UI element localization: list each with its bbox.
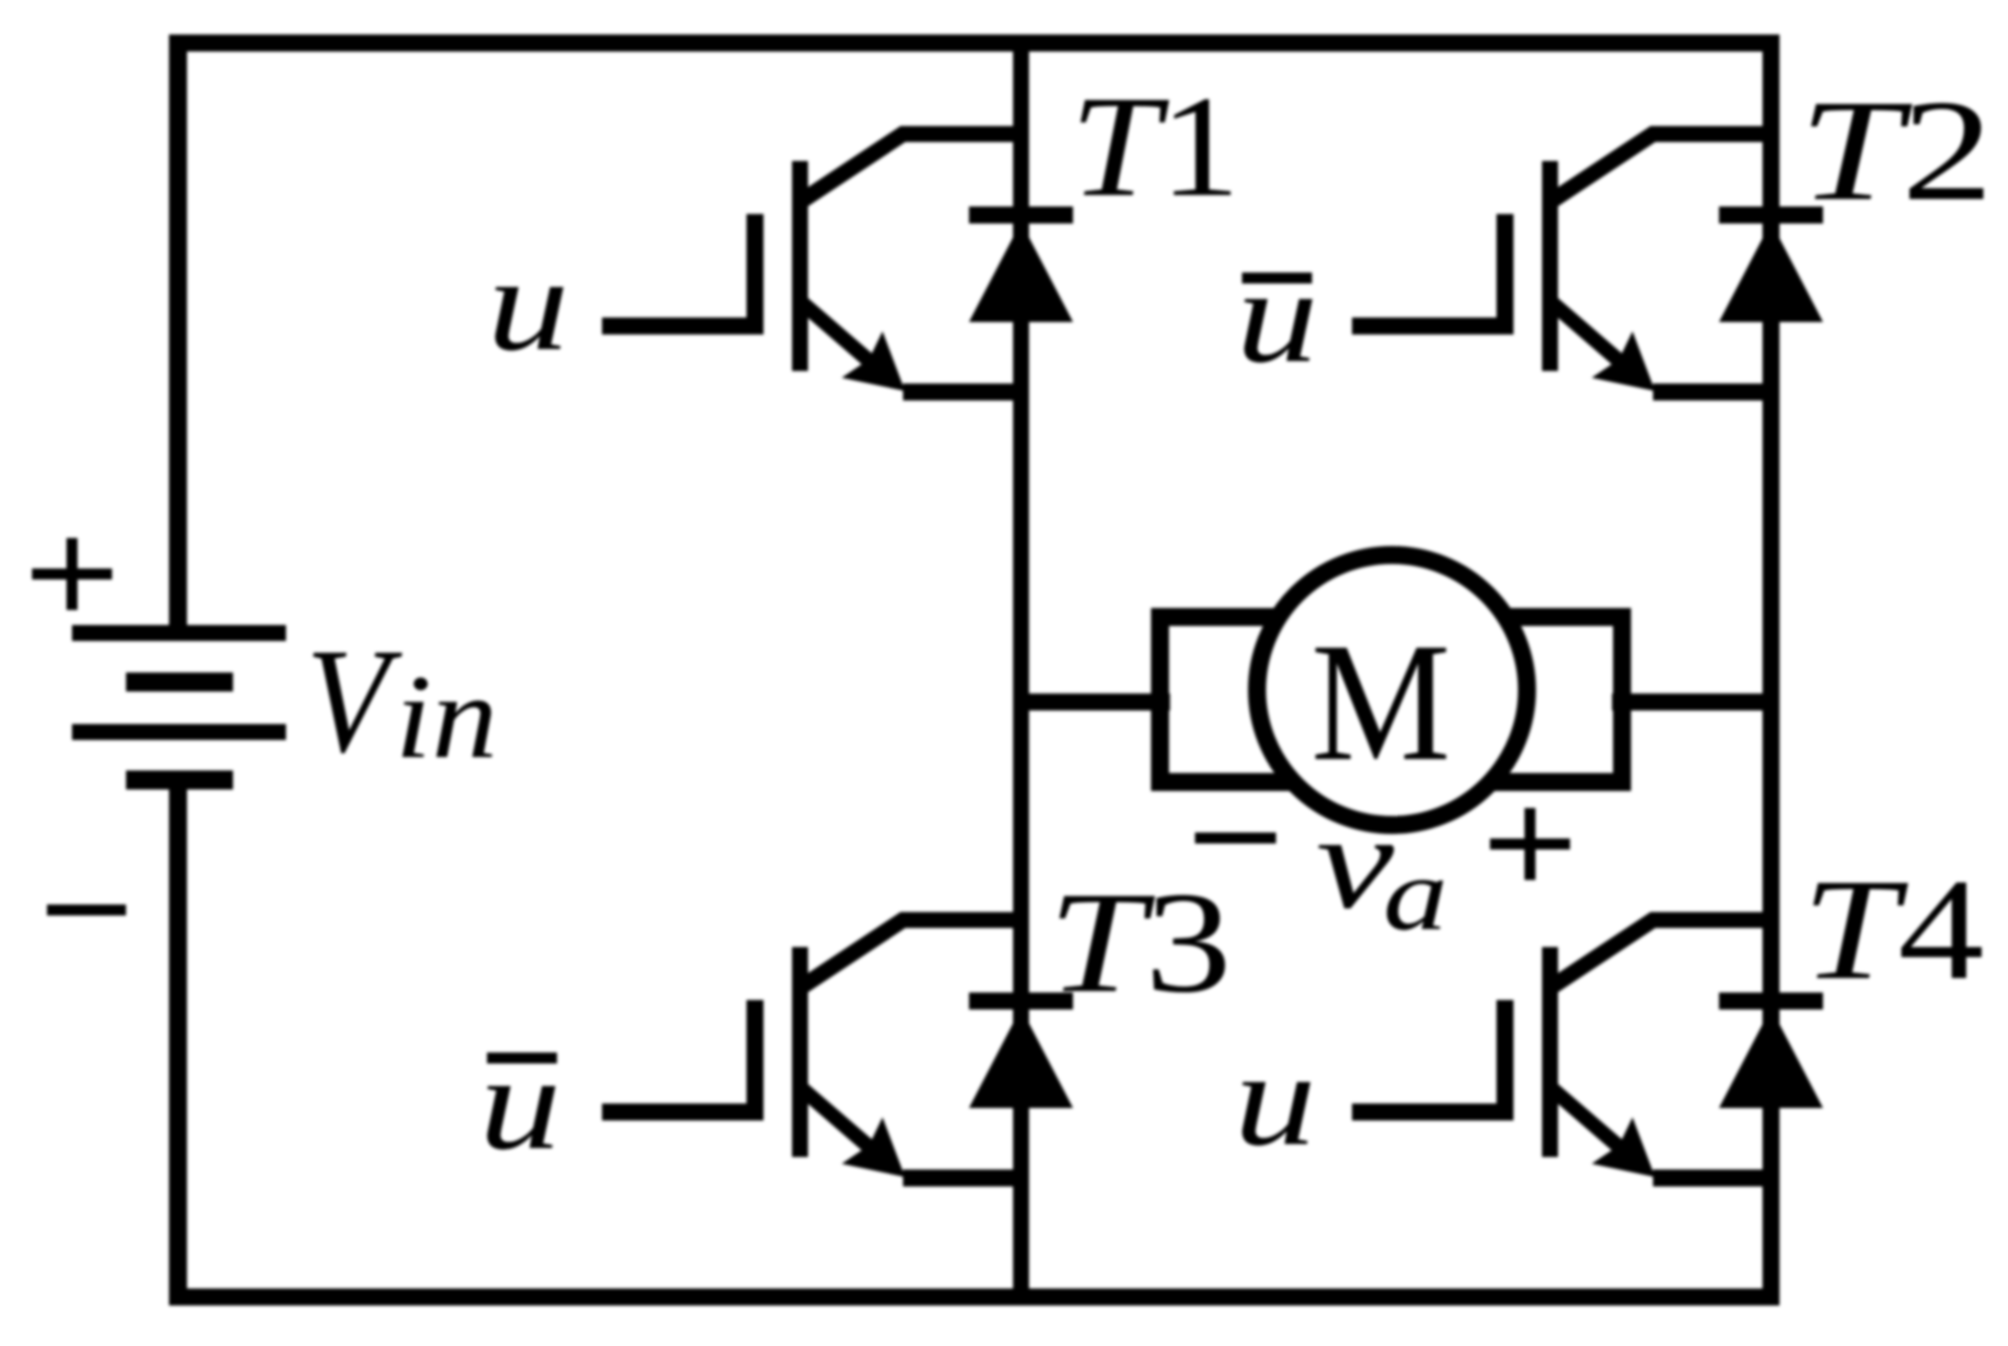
svg-text:T4: T4 [1802,850,1984,1010]
wire: left branch lower (battery - to bottom bus) [169,780,187,1306]
wire: left bridge leg rail [1013,35,1029,1306]
motor right terminal box [1440,617,1622,782]
wire: bottom bus [170,1289,1780,1306]
motor left terminal box [1160,617,1350,782]
diode across T3 [969,1001,1073,1108]
diode across T2 [1719,215,1823,322]
wire: motor left lead [1013,694,1170,711]
wire: motor right lead [1612,694,1780,711]
wire: right bridge leg rail [1763,35,1780,1306]
svg-text:T2: T2 [1799,70,1993,231]
svg-text:T3: T3 [1048,862,1232,1023]
label minus (armature voltage) [1195,833,1276,844]
label battery plus [32,538,112,610]
transistor T3 (IGBT) [602,920,1021,1178]
diode across T1 [969,215,1073,322]
wire: left branch upper (to battery +) [169,35,187,635]
svg-text:u: u [487,229,569,379]
svg-text:a: a [1383,837,1448,952]
svg-text:u: u [479,1028,561,1178]
transistor T1 (IGBT) [602,134,1021,392]
svg-text:in: in [395,651,498,783]
wire: top bus [170,35,1780,52]
diode across T4 [1719,1001,1823,1108]
svg-text:u: u [1234,1024,1316,1174]
label plus (armature voltage) [1490,808,1570,880]
motor body M [1257,555,1527,825]
battery V_in [72,633,286,780]
svg-text:V: V [306,617,403,784]
label battery minus [47,905,126,916]
svg-text:M: M [1311,608,1451,796]
svg-text:T1: T1 [1070,66,1240,227]
svg-text:u: u [1236,241,1318,391]
transistor T4 (IGBT) [1352,920,1771,1178]
transistor T2 (IGBT) [1352,134,1771,392]
